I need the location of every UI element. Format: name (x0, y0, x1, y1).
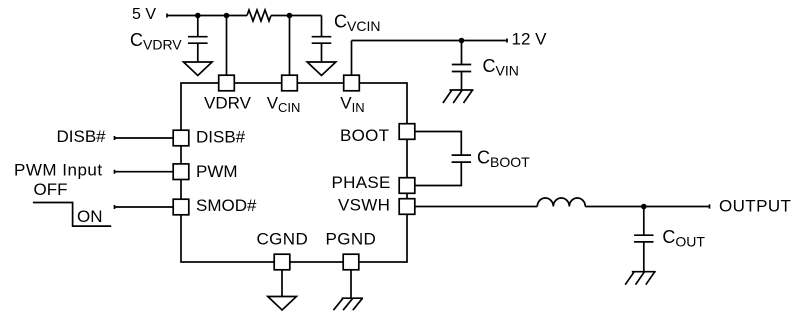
capacitor CVIN (452, 41, 471, 91)
wire 5V rail right segment (271, 15, 322, 17)
pin SMOD# (173, 196, 257, 215)
label PWM Input (14, 160, 103, 179)
label CVCIN (334, 11, 380, 34)
wire BOOT to CBOOT (415, 132, 462, 156)
label ON (77, 207, 103, 226)
svg-text:CBOOT: CBOOT (477, 147, 530, 170)
ground triangle (CGND) (268, 297, 297, 311)
wire DISB# input (115, 136, 174, 140)
label OFF (34, 180, 68, 199)
wire PGND stub (350, 270, 352, 298)
svg-text:CVIN: CVIN (483, 56, 519, 79)
svg-text:ON: ON (77, 207, 103, 226)
wire VIN stub (351, 41, 353, 76)
pin VDRV (204, 75, 252, 112)
wire 12V rail (352, 39, 508, 43)
IC U1 body (181, 83, 407, 262)
node junction CVDRV tap (195, 13, 201, 19)
svg-text:CGND: CGND (257, 230, 309, 249)
label 5 V (132, 6, 156, 23)
svg-text:COUT: COUT (662, 227, 705, 250)
svg-text:SMOD#: SMOD# (196, 196, 257, 215)
pin PGND (326, 230, 377, 270)
ground triangle (CVCIN) (307, 62, 336, 76)
svg-text:VCIN: VCIN (267, 94, 301, 115)
label COUT (662, 227, 705, 250)
waveform OFF/ON step (33, 203, 111, 227)
wire inductor to OUTPUT (585, 204, 709, 208)
node junction CVIN tap (459, 38, 465, 44)
wire VSWH to inductor (415, 206, 538, 208)
pin VSWH (338, 196, 415, 215)
pin PHASE (332, 173, 415, 193)
svg-text:CVDRV: CVDRV (130, 30, 182, 53)
pin CGND (257, 230, 309, 270)
wire VCIN stub (289, 16, 291, 76)
resistor R (5V to VCIN) (247, 10, 271, 21)
pin VCIN (267, 75, 301, 115)
capacitor CVDRV (188, 16, 208, 63)
svg-text:5 V: 5 V (132, 6, 156, 23)
wire 5V rail left segment (167, 14, 247, 18)
wire PWM input (115, 170, 174, 174)
svg-text:DISB#: DISB# (57, 127, 107, 146)
ground hatched (CVIN) (443, 90, 474, 103)
label 12 V (512, 29, 548, 48)
svg-text:PWM: PWM (196, 162, 238, 181)
svg-text:BOOT: BOOT (340, 126, 389, 145)
inductor L (537, 198, 585, 207)
capacitor CVCIN (312, 16, 332, 63)
svg-text:PGND: PGND (326, 230, 377, 249)
ground triangle (CVDRV) (184, 62, 213, 76)
svg-text:PWM Input: PWM Input (14, 160, 103, 179)
svg-text:DISB#: DISB# (196, 128, 246, 147)
wire VDRV stub (226, 16, 228, 76)
svg-text:CVCIN: CVCIN (334, 11, 380, 34)
pin BOOT (340, 124, 415, 146)
wire SMOD# input (115, 205, 174, 209)
label CVIN (483, 56, 519, 79)
pin PWM (173, 162, 237, 181)
svg-text:VSWH: VSWH (338, 196, 390, 215)
capacitor CBOOT (452, 155, 471, 162)
svg-text:VDRV: VDRV (204, 94, 252, 113)
svg-text:PHASE: PHASE (332, 173, 391, 192)
wire CGND stub (281, 270, 283, 297)
ground hatched (COUT) (625, 272, 656, 285)
ground hatched (PGND) (333, 298, 363, 310)
svg-text:OUTPUT: OUTPUT (719, 197, 791, 216)
pin VIN (340, 75, 364, 115)
label DISB# external (57, 127, 107, 146)
node junction VDRV tap (224, 13, 230, 19)
node junction VCIN tap (287, 13, 293, 19)
svg-text:VIN: VIN (340, 94, 364, 115)
capacitor COUT (634, 207, 653, 272)
node junction COUT tap (641, 204, 647, 210)
label CBOOT (477, 147, 530, 170)
label CVDRV (130, 30, 182, 53)
svg-text:12 V: 12 V (512, 29, 548, 48)
pin DISB# (173, 128, 245, 147)
label OUTPUT (719, 197, 791, 216)
svg-text:OFF: OFF (34, 180, 68, 199)
wire CBOOT to PHASE (415, 162, 462, 185)
